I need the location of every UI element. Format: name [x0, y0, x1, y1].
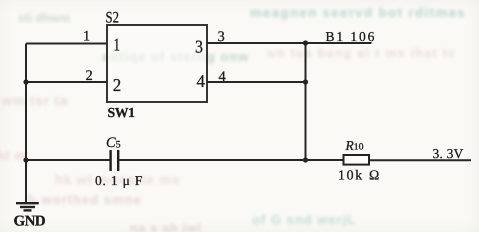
svg-text:C5: C5: [106, 135, 121, 151]
resistor R10 body: [344, 155, 370, 165]
wire: right vertical bus: [305, 43, 307, 160]
wire: bottom rail, capacitor to resistor: [119, 159, 343, 161]
capacitor C5 plates: [111, 150, 119, 171]
wire: stub under net label B1 106: [306, 42, 372, 44]
svg-text:3. 3V: 3. 3V: [433, 146, 464, 161]
svg-text:2: 2: [86, 68, 93, 84]
svg-text:2: 2: [113, 75, 122, 95]
wire: pin 4 to right vertical bus: [207, 81, 306, 83]
svg-text:3: 3: [195, 37, 203, 57]
wire: left vertical bus from pin1 wire down to ground: [25, 44, 27, 203]
wire: bottom rail, left bus to capacitor: [26, 159, 110, 161]
svg-text:10k Ω: 10k Ω: [338, 168, 381, 183]
junction: left bus and bottom rail: [23, 157, 28, 162]
svg-text:4: 4: [197, 71, 206, 91]
faint print bleed-through rows (decorative background): [18, 11, 70, 25]
svg-text:B1 106: B1 106: [326, 29, 377, 44]
svg-text:S2: S2: [106, 10, 120, 27]
junction: right bus and bottom rail: [303, 157, 308, 162]
ground symbol: [16, 202, 39, 204]
junction: left bus and pin 2 wire: [23, 79, 28, 84]
junction: pin4 wire and right bus: [303, 79, 308, 84]
wire: resistor to 3.3V rail end: [369, 159, 471, 161]
wire: pin 2 horizontal from left bus to switch: [26, 81, 107, 83]
junction: pin3 wire and right bus: [303, 40, 308, 45]
svg-text:SW1: SW1: [108, 105, 136, 120]
wire: pin 3 to right vertical bus: [207, 42, 306, 44]
svg-text:0. 1 μ F: 0. 1 μ F: [95, 173, 143, 188]
svg-text:R10: R10: [345, 138, 364, 153]
svg-text:1: 1: [83, 29, 90, 45]
wire: pin 1 horizontal from left bus to switch: [26, 43, 107, 45]
svg-text:1: 1: [114, 35, 121, 55]
svg-text:GND: GND: [14, 214, 46, 230]
switch SW1 body: [107, 25, 207, 102]
